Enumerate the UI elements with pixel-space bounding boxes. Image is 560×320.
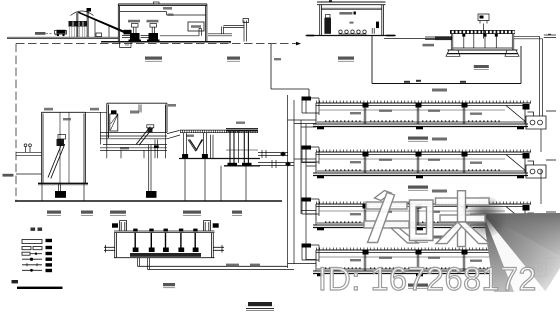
svg-text:ID: 167268172: ID: 167268172 (318, 261, 537, 297)
